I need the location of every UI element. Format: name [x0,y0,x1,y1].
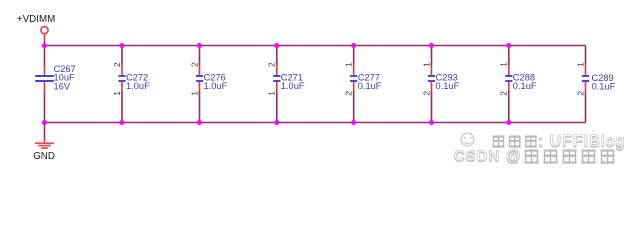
svg-text:1: 1 [267,91,277,96]
svg-text:1: 1 [189,91,199,96]
svg-text:2: 2 [267,62,277,67]
wire power stub [44,41,46,46]
wire bottom bus GND rail [45,122,586,124]
junction C271 bottom [274,120,279,125]
wire C288 top [508,46,510,66]
capacitor C289 [582,66,589,92]
watermark line 1: WeChat id UFFIBlog [493,133,626,150]
svg-text:1.0uF: 1.0uF [204,81,228,91]
junction C277 top [351,43,356,48]
wire C289 bottom [585,91,587,123]
svg-text:16V: 16V [54,81,71,91]
capacitor C267 [35,66,54,92]
junction C267 bottom [42,120,47,125]
watermark logo [461,133,474,146]
capacitor C271 [273,66,280,92]
junction C288 top [506,43,511,48]
svg-text:2: 2 [344,91,354,96]
svg-text:1: 1 [499,62,509,67]
svg-text:2: 2 [112,62,122,67]
svg-text:GND: GND [33,151,55,162]
junction C276 bottom [197,120,202,125]
capacitor C277 [350,66,357,92]
capacitor C293 [428,66,435,92]
wire C276 top [199,46,201,66]
wire C271 bottom [276,91,278,123]
junction C272 top [120,43,125,48]
watermark line 2: CSDN @ user [454,149,615,165]
wire C288 bottom [508,91,510,123]
junction C267 top [42,43,47,48]
svg-text:2: 2 [499,91,509,96]
wire C267 top [44,46,46,66]
svg-text:2: 2 [575,91,585,96]
svg-text:0.1uF: 0.1uF [436,81,460,91]
wire C271 top [276,46,278,66]
junction C293 bottom [429,120,434,125]
svg-text:CSDN @: CSDN @ [454,149,522,165]
svg-text:: UFFIBlog: : UFFIBlog [539,133,626,150]
svg-text:1.0uF: 1.0uF [281,81,305,91]
wire C293 top [431,46,433,66]
wire C277 bottom [353,91,355,123]
svg-text:2: 2 [421,91,431,96]
wire C276 bottom [199,91,201,123]
junction C271 top [274,43,279,48]
svg-text:1: 1 [344,62,354,67]
svg-text:+VDIMM: +VDIMM [17,14,55,25]
wire top bus +VDIMM rail [45,45,586,47]
junction C277 bottom [351,120,356,125]
svg-text:1: 1 [421,62,431,67]
svg-text:0.1uF: 0.1uF [513,81,537,91]
junction C276 top [197,43,202,48]
wire C293 bottom [431,91,433,123]
wire C267 bottom [44,91,46,123]
svg-text:0.1uF: 0.1uF [358,81,382,91]
capacitor C276 [196,66,203,92]
svg-text:2: 2 [189,62,199,67]
wire C289 top [585,46,587,66]
capacitor C272 [118,66,125,92]
wire C277 top [353,46,355,66]
svg-text:1: 1 [112,91,122,96]
junction C272 bottom [120,120,125,125]
power symbol +VDIMM [41,27,48,41]
ground symbol [35,140,54,149]
wire C272 top [121,46,123,66]
svg-text:1.0uF: 1.0uF [126,81,150,91]
junction C293 top [429,43,434,48]
wire GND stub [44,123,46,140]
capacitor C288 [505,66,512,92]
svg-text:0.1uF: 0.1uF [592,82,616,92]
junction C288 bottom [506,120,511,125]
wire C272 bottom [121,91,123,123]
svg-text:1: 1 [575,62,585,67]
